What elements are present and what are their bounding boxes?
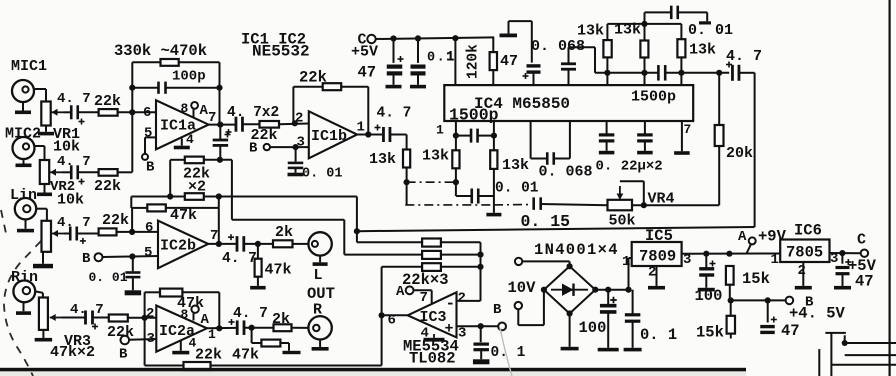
electrolytic 100u out bbox=[699, 261, 715, 276]
pin5 wire IC1a bbox=[145, 137, 156, 153]
stem 13kb bottom bbox=[644, 58, 646, 73]
stem 13ka top bbox=[606, 24, 608, 40]
pin8 stem bbox=[193, 109, 195, 118]
stub 13kc to IC4 bbox=[680, 73, 682, 85]
stem 100u top bbox=[607, 290, 609, 306]
electrolytic 47u 5V bbox=[836, 259, 852, 274]
wire Rin to VR3 bbox=[35, 291, 43, 297]
junction R div bbox=[249, 325, 255, 331]
junction VR4 wiper bbox=[641, 202, 647, 208]
svg-text:VR4: VR4 bbox=[648, 191, 675, 208]
stem 022b bbox=[644, 121, 646, 134]
electrolytic 47u rail bbox=[387, 56, 404, 73]
wire 22k to pin6 bbox=[118, 111, 156, 113]
junction 47 5V bbox=[839, 250, 845, 256]
wire 22kx2 left vertical bbox=[169, 160, 171, 197]
terminal B circle IC1b in bbox=[264, 144, 270, 150]
wire bottom bus right bbox=[211, 365, 382, 367]
stem IC4 pin col a bbox=[455, 121, 457, 150]
wire 22kx2 row2 left bbox=[131, 196, 185, 198]
svg-text:5: 5 bbox=[144, 245, 152, 261]
svg-text:3: 3 bbox=[297, 135, 305, 151]
junction bridge top bbox=[567, 263, 573, 269]
svg-text:47k: 47k bbox=[232, 347, 259, 364]
junction IC2b out top bbox=[216, 193, 222, 199]
wire IC2a node down bbox=[144, 318, 146, 366]
stub bar 0.01 bbox=[699, 21, 711, 24]
wire AC top to bridge bbox=[522, 261, 569, 266]
svg-text:+: + bbox=[445, 321, 454, 338]
wire 5V rail bbox=[376, 37, 495, 39]
svg-text:B: B bbox=[119, 347, 128, 363]
resistor 13k col2 bbox=[452, 150, 459, 168]
junction IC2b output bbox=[216, 241, 222, 247]
ground under VR1 bbox=[38, 126, 54, 136]
svg-text:47k: 47k bbox=[265, 262, 292, 279]
wire antenna link bbox=[509, 21, 532, 63]
svg-text:7809: 7809 bbox=[639, 248, 676, 266]
capacitor 4.7 top right bbox=[726, 62, 739, 81]
antenna bar symbol bbox=[500, 34, 518, 38]
stem 20k top bbox=[718, 73, 720, 125]
stem 0068b bottom bbox=[568, 69, 570, 85]
svg-text:8: 8 bbox=[181, 101, 189, 116]
capacitor 0.15 bbox=[534, 197, 541, 210]
svg-text:1500p: 1500p bbox=[449, 106, 499, 125]
wire 0.068 loop left bbox=[531, 121, 547, 159]
junction pin6 IC2b bbox=[129, 229, 135, 235]
wire 47kR tail bbox=[280, 343, 289, 351]
junction 100b bbox=[703, 251, 709, 257]
svg-text:A: A bbox=[738, 229, 747, 245]
junction trio bot c bbox=[678, 70, 684, 76]
capacitor 0.22u b bbox=[637, 135, 653, 141]
output wire IC1a bbox=[209, 124, 236, 126]
capacitor 4.7 after IC1b bbox=[375, 125, 390, 143]
svg-text:4. 7: 4. 7 bbox=[233, 306, 268, 322]
wire fb IC1b right bbox=[341, 87, 368, 135]
wire Lin to VR bbox=[36, 209, 47, 221]
terminal B circle IC2a bbox=[121, 336, 130, 345]
electrolytic cap 0.068a bbox=[523, 66, 541, 79]
svg-text:1N4001×4: 1N4001×4 bbox=[534, 241, 619, 259]
IC5 7809 box bbox=[632, 242, 682, 266]
ground under VR2 bbox=[37, 184, 52, 196]
inset wire top bbox=[825, 332, 846, 334]
wire 22k to pin2 bbox=[279, 123, 309, 126]
wire cap to junction L bbox=[244, 243, 273, 245]
svg-text:0. 01: 0. 01 bbox=[688, 22, 733, 39]
stub 13kb to IC4 bbox=[644, 73, 646, 85]
svg-text:IC2b: IC2b bbox=[160, 238, 196, 255]
svg-text:1: 1 bbox=[771, 252, 779, 268]
svg-text:47k×2: 47k×2 bbox=[50, 344, 95, 361]
svg-text:47: 47 bbox=[358, 64, 377, 82]
potentiometer VR Lin 47k bbox=[42, 221, 52, 252]
resistor 2k L bbox=[273, 240, 293, 247]
resistor 22k (x2 lower) bbox=[185, 193, 204, 200]
connector Rin jack bbox=[13, 281, 35, 303]
svg-text:100: 100 bbox=[695, 287, 723, 305]
svg-text:0. 1: 0. 1 bbox=[640, 326, 677, 344]
terminal B circle IC2b bbox=[95, 253, 103, 261]
terminal A +9V bbox=[749, 237, 756, 244]
electrolytic 100u bridge bbox=[600, 297, 617, 312]
terminal B circle IC3 bbox=[498, 323, 506, 331]
stem 47k L bbox=[257, 244, 259, 259]
junction fb left 100p bbox=[129, 85, 135, 91]
wire cap MIC2 b bbox=[78, 171, 99, 173]
wire cap MIC2 a bbox=[62, 171, 71, 173]
op-amp IC3 (points left) bbox=[408, 292, 457, 337]
stem 47k R bbox=[252, 328, 262, 343]
dash-dot line lower bbox=[405, 204, 494, 206]
svg-text:B: B bbox=[249, 141, 258, 157]
wire r1 right bbox=[441, 242, 481, 301]
svg-text:Rin: Rin bbox=[11, 269, 38, 286]
pin5 wire IC2b bbox=[103, 256, 158, 257]
junction pin6-mic1 bbox=[129, 109, 135, 115]
connector R out jack bbox=[308, 316, 331, 339]
resistor 22k (x2 upper) bbox=[185, 157, 204, 164]
resistor 15k lower bbox=[727, 316, 735, 334]
junction IC2a output bbox=[216, 325, 222, 331]
stem 13kc bottom bbox=[680, 57, 682, 72]
inset wire b bbox=[845, 342, 896, 344]
scan artifact curve bbox=[500, 328, 512, 376]
svg-text:15k: 15k bbox=[742, 270, 770, 288]
wire trio bottom bbox=[595, 72, 658, 74]
junction bridge right bbox=[592, 287, 598, 293]
wire MIC2 to VR2 bbox=[35, 146, 45, 160]
junction bridge left bbox=[541, 287, 547, 293]
resistor 330k~470k bbox=[161, 59, 179, 66]
stem 13kc top bbox=[680, 24, 682, 39]
wire trio top bbox=[607, 23, 681, 25]
stem 15k1 bottom bbox=[729, 285, 731, 301]
svg-text:R: R bbox=[313, 302, 322, 319]
capacitor 0.01 IC1b bbox=[288, 163, 304, 168]
svg-text:15k: 15k bbox=[696, 324, 724, 342]
wire fb right vertical bbox=[219, 62, 221, 124]
svg-text:47: 47 bbox=[500, 53, 518, 70]
wire fb top left bbox=[132, 61, 160, 63]
svg-text:47: 47 bbox=[855, 273, 874, 291]
bottom border bar bbox=[0, 368, 746, 372]
capacitor 4.7x2 bbox=[226, 117, 243, 135]
svg-text:4. 7: 4. 7 bbox=[377, 106, 412, 122]
inset white patch bbox=[712, 341, 896, 376]
wire r3 left bbox=[382, 267, 423, 316]
wire 0.068 loop right bbox=[555, 121, 570, 159]
svg-text:2: 2 bbox=[458, 291, 466, 307]
ground 47u 5V bbox=[834, 274, 851, 290]
wire pin6 node vertical bbox=[131, 62, 133, 172]
resistor 22k sum3 bbox=[422, 263, 441, 271]
stem 13kb top bbox=[644, 24, 646, 41]
junction trio bot b bbox=[641, 70, 647, 76]
wire VR4 bracket bbox=[620, 181, 644, 205]
junction 1500p left bbox=[453, 133, 459, 139]
inset wire c bbox=[845, 354, 896, 356]
wire 13k3 bottom bbox=[493, 169, 495, 196]
capacitor 0.068 bottom bbox=[547, 152, 554, 165]
junction rail cap47 bbox=[390, 35, 396, 41]
wire fb left IC2b bbox=[132, 207, 147, 209]
stem 022a bbox=[606, 121, 608, 134]
junction 1500p right bbox=[491, 133, 497, 139]
stem 0068a bottom bbox=[533, 72, 535, 85]
stem 47c 4.5V bbox=[767, 300, 769, 322]
ground pin7 IC4 bbox=[674, 121, 690, 155]
ground R jack bbox=[312, 340, 329, 351]
capacitor 0.22u a bbox=[599, 135, 615, 141]
op-amp IC1b bbox=[309, 111, 357, 158]
wire row2 right bbox=[204, 196, 357, 198]
wire 001 right bbox=[479, 196, 494, 205]
svg-text:6: 6 bbox=[145, 220, 153, 236]
ground under VR3 bbox=[35, 330, 53, 342]
dash-dot to 0.15 bbox=[494, 204, 531, 206]
wire 4.7tr to vertical bbox=[739, 72, 755, 74]
svg-text:4. 7: 4. 7 bbox=[57, 154, 91, 170]
wire fb IC2a left bbox=[145, 291, 160, 293]
svg-text:+4. 5V: +4. 5V bbox=[789, 305, 846, 323]
svg-text:2: 2 bbox=[146, 306, 154, 322]
terminal A circle IC2a bbox=[191, 306, 198, 313]
ground 100u bbox=[598, 312, 619, 352]
svg-text:47k: 47k bbox=[170, 207, 197, 224]
svg-text:13k: 13k bbox=[577, 23, 604, 40]
capacitor 4.7 Rin bbox=[86, 311, 99, 330]
svg-text:-: - bbox=[446, 295, 456, 313]
ground IC6 bbox=[795, 262, 812, 290]
svg-text:50k: 50k bbox=[609, 213, 636, 230]
junction 22kx2 left bottom bbox=[167, 193, 173, 199]
svg-text:3: 3 bbox=[458, 326, 466, 342]
wire 001 loop bbox=[645, 12, 671, 24]
output wire IC1b bbox=[357, 134, 382, 136]
stem cap47 top bbox=[393, 39, 395, 63]
wire Lbus horizontal bbox=[232, 219, 344, 221]
ground 100b bbox=[698, 275, 715, 291]
ground 0.01 IC2b bbox=[125, 277, 141, 295]
wire trio bottom right bbox=[665, 72, 729, 74]
svg-text:C: C bbox=[857, 232, 866, 249]
right border line bbox=[889, 0, 891, 376]
terminal C top bbox=[367, 35, 375, 43]
wire 1500p right bbox=[478, 135, 494, 137]
wire 4.5V row bbox=[731, 299, 786, 301]
junction bridge bottom bbox=[567, 310, 573, 316]
svg-text:47: 47 bbox=[781, 322, 800, 340]
ground 47k L bbox=[250, 277, 266, 290]
diode bridge bbox=[544, 266, 595, 313]
svg-text:1: 1 bbox=[622, 254, 630, 270]
inset vertical b bbox=[818, 349, 820, 376]
wire 100p right bbox=[166, 87, 220, 89]
wiper arrow VR1 bbox=[52, 109, 64, 116]
wire 120k column bbox=[454, 38, 456, 85]
resistor 22k Lin bbox=[99, 228, 117, 235]
resistor 22k MIC1 bbox=[99, 109, 118, 116]
stem 0.1 IC3 bbox=[480, 326, 482, 342]
resistor 47k feedback IC2a bbox=[160, 289, 182, 297]
svg-text:OUT: OUT bbox=[307, 285, 335, 303]
svg-text:A: A bbox=[396, 284, 405, 300]
wire MIC2 22k to node bbox=[118, 171, 133, 173]
svg-text:120k: 120k bbox=[466, 44, 482, 79]
resistor 2k R bbox=[274, 324, 292, 331]
terminal C +5V bbox=[861, 250, 868, 257]
wire capRin b bbox=[93, 317, 109, 319]
resistor 22k series IC1b bbox=[260, 121, 280, 128]
stem 15k2 bottom bbox=[730, 334, 732, 339]
wire cap to 22k MIC1 bbox=[64, 111, 72, 113]
potentiometer VR4 50k bbox=[608, 200, 633, 211]
stem cap01 top bbox=[417, 38, 419, 63]
wire node to pin6 IC2b col bbox=[130, 197, 132, 209]
svg-text:330k ~470k: 330k ~470k bbox=[114, 42, 207, 60]
wiper arrow VR4 bbox=[619, 186, 621, 197]
stem electro cap lower bbox=[219, 147, 221, 160]
stem electro cap bbox=[219, 125, 221, 140]
terminal AC bottom bbox=[515, 302, 522, 309]
ground under MIC1 bbox=[15, 102, 31, 114]
wire 22kx2 row1 right bbox=[204, 159, 232, 161]
output wire IC2b bbox=[208, 243, 236, 245]
pin3 wire IC3 bbox=[457, 325, 499, 327]
junction pin3 IC3 bbox=[478, 323, 484, 329]
wire capLin a bbox=[64, 233, 70, 235]
wire 22kRin to node bbox=[128, 317, 157, 319]
svg-text:10k: 10k bbox=[53, 139, 80, 156]
ground bridge bottom bbox=[561, 314, 579, 351]
resistor 47k R bbox=[261, 340, 280, 347]
potentiometer VR1 10k bbox=[41, 102, 50, 126]
svg-text:22k: 22k bbox=[94, 93, 121, 110]
svg-text:1: 1 bbox=[436, 123, 444, 138]
svg-text:2k: 2k bbox=[275, 224, 293, 241]
wire AC bottom path bbox=[518, 290, 544, 325]
ground L jack bbox=[313, 256, 328, 266]
wire capLin b bbox=[77, 233, 99, 235]
wire 22kLin to node bbox=[117, 231, 133, 233]
connector L out jack bbox=[308, 232, 331, 255]
ground IC3 pin4 bbox=[424, 338, 445, 342]
wire out vertical IC2b bbox=[218, 197, 220, 208]
wire capRin a bbox=[62, 317, 86, 319]
ground IC2a pin4 bbox=[172, 341, 189, 355]
ground under Rin bbox=[16, 302, 31, 315]
svg-text:22k: 22k bbox=[102, 212, 129, 229]
capacitor 4.7 MIC1 bbox=[71, 105, 84, 124]
junction fb right bbox=[216, 85, 222, 91]
ground 0.01 IC1b bbox=[288, 168, 304, 176]
wire 13k2 bottom bbox=[455, 168, 457, 182]
output wire IC3 bbox=[382, 314, 408, 316]
ground IC1a pin4 bbox=[174, 139, 190, 150]
resistor 22k Rin bbox=[109, 315, 128, 322]
pin3 wire IC1b bbox=[270, 146, 309, 148]
op-amp IC2b bbox=[158, 221, 208, 269]
capacitor 0.01 mid bbox=[472, 189, 479, 204]
op-amp IC1a bbox=[156, 100, 209, 149]
junction trio bot a bbox=[604, 70, 610, 76]
resistor 47k feedback IC2b bbox=[147, 204, 166, 211]
resistor 13k c bbox=[677, 39, 685, 57]
pin3 wire IC2a bbox=[129, 338, 156, 341]
ground 022b bbox=[637, 141, 653, 154]
svg-text:4. 7: 4. 7 bbox=[57, 91, 91, 107]
capacitor 0.01 top right bbox=[671, 6, 678, 20]
svg-text:7805: 7805 bbox=[786, 244, 823, 262]
svg-text:IC3: IC3 bbox=[420, 309, 447, 326]
pin2 wire IC3 bbox=[457, 300, 481, 302]
inset wire d bbox=[831, 364, 896, 366]
wire col1 to lower dash bbox=[406, 182, 408, 205]
junction 15k top bbox=[726, 251, 732, 257]
wire 7805 out bbox=[830, 252, 861, 254]
wire 0.15 to VR4 bbox=[541, 204, 608, 205]
svg-text:0. 22µ×2: 0. 22µ×2 bbox=[596, 159, 663, 175]
wire r2 right bbox=[441, 254, 481, 256]
svg-text:1: 1 bbox=[357, 120, 365, 136]
capacitor 0.1 rail bbox=[411, 67, 426, 74]
junction IC1b out bbox=[365, 131, 371, 137]
resistor 22k sum2 bbox=[422, 251, 441, 259]
inset stub bbox=[844, 335, 846, 343]
resistor 22k sum1 bbox=[422, 239, 441, 247]
resistor 22k bottom bbox=[184, 362, 211, 370]
svg-text:10k: 10k bbox=[57, 192, 84, 209]
svg-text:8: 8 bbox=[181, 307, 189, 322]
svg-text:7: 7 bbox=[684, 122, 692, 137]
svg-text:0. 068: 0. 068 bbox=[539, 164, 593, 181]
inset junction bbox=[842, 340, 848, 346]
bus wire long bbox=[357, 227, 755, 231]
svg-text:1: 1 bbox=[446, 49, 454, 65]
svg-text:B: B bbox=[493, 302, 502, 318]
stem A bbox=[747, 244, 752, 253]
resistor 13k col3 bbox=[490, 150, 497, 169]
wire 001 left bbox=[456, 195, 471, 197]
potentiometer VR3 bbox=[39, 298, 48, 330]
terminal A circle IC3 bbox=[406, 286, 414, 294]
electrolytic cap under IC1a out bbox=[213, 132, 231, 146]
wiper arrow VR3 bbox=[50, 314, 62, 321]
ground under Lin bbox=[17, 219, 34, 232]
svg-text:+9V: +9V bbox=[758, 228, 787, 246]
junction pin2 IC1b bbox=[292, 120, 298, 126]
op-amp IC2a bbox=[156, 306, 207, 352]
terminal AC top bbox=[515, 258, 522, 265]
svg-text:100: 100 bbox=[579, 319, 607, 337]
connector Lin jack bbox=[15, 198, 36, 219]
wire 2k to Ljack bbox=[293, 243, 309, 245]
wire MIC1 to VR1 bbox=[34, 89, 46, 102]
wire bus drop bbox=[356, 197, 358, 243]
svg-text:+5V: +5V bbox=[351, 44, 378, 61]
svg-text:13k: 13k bbox=[422, 148, 449, 165]
wire 1500p left bbox=[456, 135, 471, 137]
wire fb top right bbox=[179, 61, 220, 63]
capacitor 4.7 IC2a out bbox=[229, 319, 245, 335]
svg-text:13k: 13k bbox=[369, 151, 396, 168]
junction IC1a output bbox=[217, 122, 223, 128]
connector MIC2 jack bbox=[13, 137, 35, 159]
svg-text:6: 6 bbox=[143, 105, 151, 121]
